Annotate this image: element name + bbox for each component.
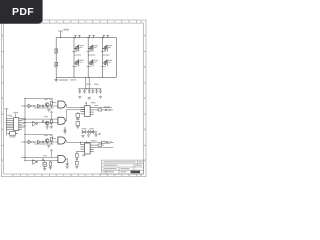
wire U1 to bus (22, 119, 25, 126)
resistor R6 (50, 138, 52, 145)
wire feedback row3 (25, 134, 56, 138)
inverter U2D (33, 160, 36, 165)
resistor R11 (98, 144, 102, 146)
U6 right pins (90, 145, 94, 152)
AND gate U3A (58, 101, 65, 108)
wire top rail (56, 36, 116, 38)
mid labels (86, 84, 98, 85)
wire phase riser (88, 77, 90, 89)
junction row3 (33, 141, 35, 143)
boot labels (82, 128, 94, 129)
inverter bubble (36, 123, 37, 124)
buffer U2C1 (28, 140, 32, 144)
junction dots (24, 37, 103, 161)
capacitor C1 (79, 89, 81, 94)
power symbol VDD (4, 109, 8, 113)
transistor Q8 (45, 121, 49, 126)
sheet number cell (131, 171, 141, 174)
wire row4 pair (21, 157, 58, 160)
Q6 label (108, 60, 112, 63)
R2 label (54, 67, 58, 68)
ground C16 (63, 132, 66, 134)
U1 left pins (6, 119, 13, 130)
transistor Q1 (74, 45, 79, 52)
wire decoupling bus (78, 88, 101, 90)
wire input bus vertical (24, 98, 26, 160)
capacitor C3 (88, 89, 90, 94)
driver IC U6 (85, 143, 91, 154)
transistor Q10 box (43, 161, 46, 169)
resonator Y1 (8, 131, 18, 135)
R11 label (95, 142, 111, 144)
resistor R7b (49, 161, 51, 168)
ground boot 2 (87, 135, 90, 137)
resistor R4 (50, 102, 52, 109)
U1 right pins (19, 119, 22, 130)
bootstrap diode D1 (74, 35, 80, 38)
ground Q7 (47, 110, 50, 112)
U6 bottom stubs (83, 154, 85, 156)
ground boot 1 (81, 135, 84, 137)
ground Q8 (46, 127, 49, 129)
resistor R5 (50, 120, 52, 126)
wire bridge right edge (115, 37, 117, 77)
capacitor C4 (92, 89, 94, 94)
ground bridge (54, 80, 58, 82)
U6 left pins (80, 145, 84, 152)
capacitor C16 (64, 127, 66, 132)
wire U6 out A (94, 146, 113, 148)
resistor R2 (55, 62, 58, 65)
Q2 label (80, 60, 84, 63)
wire bridge left edge (55, 37, 57, 79)
Q1 label (80, 45, 84, 48)
chain2 component lower (76, 161, 79, 165)
wire phase links (74, 54, 109, 56)
ground Q9 (47, 146, 50, 148)
wire left supply bus (5, 113, 7, 136)
transistor Q3 (88, 45, 93, 52)
U4 label (91, 102, 96, 103)
wire gate1 output (65, 105, 84, 108)
capacitor C5 (96, 89, 98, 94)
U4 right pins (90, 108, 94, 115)
buffer U2A2 (38, 104, 41, 108)
U1 label (15, 113, 17, 117)
U4 top stub (85, 103, 87, 105)
wire column 1 (73, 37, 75, 77)
bootstrap capacitor C21 (92, 130, 94, 134)
sheet border frame (1, 20, 146, 177)
transistor Q6 (102, 60, 107, 67)
diode D4 (42, 105, 43, 107)
feedback drop row2 (51, 111, 53, 120)
row3 labels (44, 135, 53, 136)
ground mid 2 (88, 97, 91, 99)
wire bottom rail (56, 76, 116, 78)
transistor Q5 (102, 45, 107, 52)
capacitor C2 (83, 89, 85, 94)
bootstrap capacitor C19 (87, 130, 89, 134)
wire gate2 output (65, 110, 84, 121)
row1 labels (44, 99, 53, 100)
wire gate links (73, 52, 106, 67)
bootstrap capacitor C20 (90, 130, 92, 134)
wire U6 feed (79, 142, 81, 144)
ground chain2 (75, 166, 78, 168)
ground R7b (49, 168, 52, 170)
wire phase riser 2 (85, 77, 87, 89)
wire feedback row1 (25, 98, 56, 102)
Y1 label (10, 136, 16, 137)
ground Q10 (43, 169, 46, 171)
AND gate U3C (58, 137, 65, 144)
row2 labels (44, 116, 48, 117)
wire U4 out A (94, 107, 112, 109)
bootstrap capacitor C18 (84, 130, 86, 134)
resistor R12 (102, 141, 106, 143)
bootstrap diode D3 (103, 35, 109, 38)
inverter bubble (36, 161, 37, 162)
transistor Q7 (45, 103, 49, 108)
bootstrap capacitor C17 (82, 130, 84, 134)
supply labels (7, 115, 12, 117)
capacitor C12 (66, 163, 69, 166)
Q3 label (94, 45, 98, 48)
title text (103, 161, 143, 172)
IC U1 (14, 118, 19, 131)
transistor Q4 (88, 60, 93, 67)
wire gate3 output (65, 141, 101, 143)
chain capacitor X2 (76, 117, 79, 120)
wire row sub (34, 143, 54, 145)
transistor Q9 (45, 139, 49, 144)
wire column 3 (101, 37, 103, 77)
chain component X1 (76, 112, 80, 117)
zone reference marks (2, 21, 146, 176)
wire row sub (34, 107, 54, 109)
AND gate U3B (58, 117, 65, 124)
net arrow 2 (107, 141, 114, 143)
R1 label (54, 53, 58, 54)
R10 label (95, 105, 111, 108)
driver IC U4 (85, 106, 91, 117)
resistor R1 (55, 49, 58, 52)
PDF badge (0, 0, 43, 24)
VCC label (64, 29, 70, 31)
ground chain (76, 126, 79, 128)
U1 pin labels (22, 120, 24, 128)
feedback drop row4 (51, 149, 53, 158)
wire gate4 output (65, 159, 67, 163)
net labels below rail (59, 79, 76, 80)
transistor Q2 (74, 60, 79, 67)
diode D5 (42, 120, 43, 122)
chain2 component (76, 151, 81, 161)
Q4 label (94, 60, 98, 63)
resistor R10 (98, 109, 102, 111)
buffer U2C2 (38, 140, 41, 144)
chain component X3 (76, 122, 80, 126)
wire row1 line (21, 105, 58, 107)
title block (102, 160, 144, 174)
diode D6 (42, 141, 43, 143)
wire column 2 (87, 37, 89, 77)
U6 label (91, 140, 96, 141)
ground R5 (50, 126, 53, 128)
wire U6 out B (94, 144, 104, 146)
ground mid 3 (99, 96, 102, 98)
svg-text:PDF: PDF (12, 6, 34, 18)
net arrow 1 (106, 109, 113, 111)
buffer U2A1 (28, 104, 32, 108)
AND gate U3D (58, 156, 65, 163)
Q5 label (108, 45, 112, 48)
U6 top stub (85, 141, 87, 143)
wire U4 out B (94, 109, 105, 111)
wire row2 pair (21, 119, 58, 122)
power symbol VCC (58, 31, 63, 38)
node cluster C15 (92, 132, 101, 136)
inverter U2B (33, 121, 36, 126)
ground mid 1 (78, 96, 81, 98)
capacitor C6 (99, 89, 101, 94)
bootstrap diode D2 (88, 35, 94, 38)
ground C12 (66, 166, 69, 168)
junction row1 (33, 105, 35, 107)
U4 left pins (80, 107, 84, 114)
diode D7 (42, 159, 43, 161)
row4 labels (43, 155, 47, 156)
wire row3 line (21, 141, 58, 143)
